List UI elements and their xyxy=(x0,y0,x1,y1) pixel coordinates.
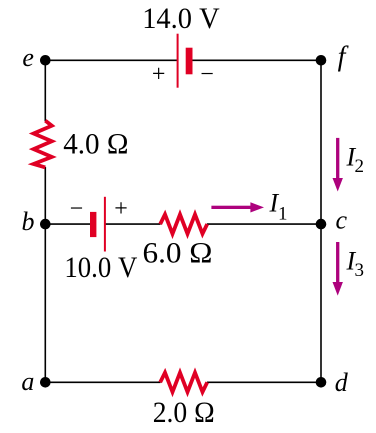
svg-text:+: + xyxy=(152,62,166,88)
svg-text:c: c xyxy=(336,206,348,235)
svg-text:−: − xyxy=(200,62,214,88)
svg-text:6.0 Ω: 6.0 Ω xyxy=(143,236,213,269)
svg-text:d: d xyxy=(335,368,349,397)
svg-text:14.0 V: 14.0 V xyxy=(142,2,220,35)
svg-text:2: 2 xyxy=(355,156,365,177)
svg-text:1: 1 xyxy=(278,204,288,225)
svg-text:+: + xyxy=(114,196,128,222)
svg-text:2.0 Ω: 2.0 Ω xyxy=(153,396,215,429)
svg-text:3: 3 xyxy=(355,260,365,281)
svg-text:a: a xyxy=(21,367,34,396)
svg-text:b: b xyxy=(22,207,35,236)
svg-text:4.0 Ω: 4.0 Ω xyxy=(63,128,128,161)
svg-text:e: e xyxy=(22,43,34,72)
svg-text:−: − xyxy=(70,196,84,222)
svg-text:10.0 V: 10.0 V xyxy=(64,251,137,284)
